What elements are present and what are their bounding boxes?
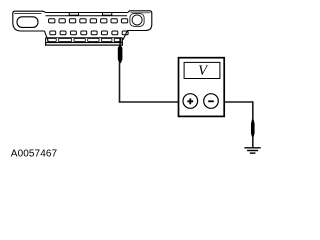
left mounting tab [13,11,46,31]
bottom band [46,43,123,46]
right tab inner top line [131,12,151,14]
bottom lip top line [46,37,123,39]
right tab circular hole [132,15,142,25]
wire: probe P1 down to junction [119,63,121,103]
wire: junction to voltmeter + terminal [119,101,185,103]
bottom lip side walls [46,38,123,45]
probe P2 on ground lead [251,120,255,137]
body top inner line [46,15,128,17]
top notch 1 [69,13,78,16]
body right diagonal edge [123,31,128,40]
voltmeter display [184,62,220,78]
left tab oval hole [17,17,38,28]
pin row 1 (8 pins) [49,19,128,23]
wire: voltmeter - terminal to right corner [217,101,254,103]
ground symbol [244,148,260,153]
left tab inner top line [14,12,41,14]
wire: right corner down to ground [252,101,254,147]
body top outer line [46,12,128,14]
voltmeter - terminal [204,94,219,109]
right tab inner rounded square [130,14,144,27]
connector J1 (data link connector) [13,11,152,45]
bottom contact rects [48,39,121,42]
pin row 2 (8 pins) [50,31,128,35]
svg-text:A0057467: A0057467 [11,149,58,160]
voltmeter V1 body [179,58,225,117]
top notch 2 [103,13,112,16]
probe P1 at connector pin [118,38,123,63]
right mounting tab [128,11,152,31]
body left diagonal edge [45,31,49,42]
voltmeter + terminal [183,94,198,109]
